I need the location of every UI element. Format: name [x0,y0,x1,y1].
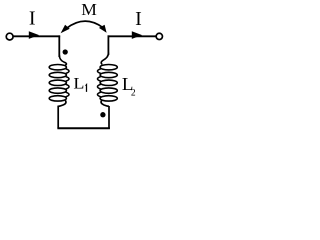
dot polarity L1 [63,49,68,54]
svg-text:I: I [29,7,36,29]
wire bottom horizontal [57,127,110,129]
current arrow right (I) [132,31,142,39]
arc arrowhead right [99,25,107,33]
wire right horizontal [108,35,156,37]
mutual inductance arc M [67,21,103,28]
wire right entry hook into coil [101,53,108,65]
svg-text:2: 2 [131,88,136,98]
terminal left (open circle) [6,33,13,40]
wire right vertical bottom [108,106,110,129]
wire left entry hook into coil [59,55,66,65]
wire left horizontal [13,35,60,37]
dot polarity L2 [100,112,105,117]
svg-text:I: I [135,8,142,30]
wire right vertical from corner [107,35,109,55]
inductor L2 coil loops [98,65,118,102]
svg-text:M: M [81,0,97,18]
current arrow left (I) [29,31,39,39]
arc arrowhead left [61,25,70,34]
wire right coil exit hook [101,100,109,106]
wire left coil exit to bottom [58,100,66,128]
wire left vertical from corner [58,35,60,57]
inductor L1 coil loops [49,65,69,102]
terminal right (open circle) [156,33,162,39]
svg-text:L: L [73,74,84,92]
